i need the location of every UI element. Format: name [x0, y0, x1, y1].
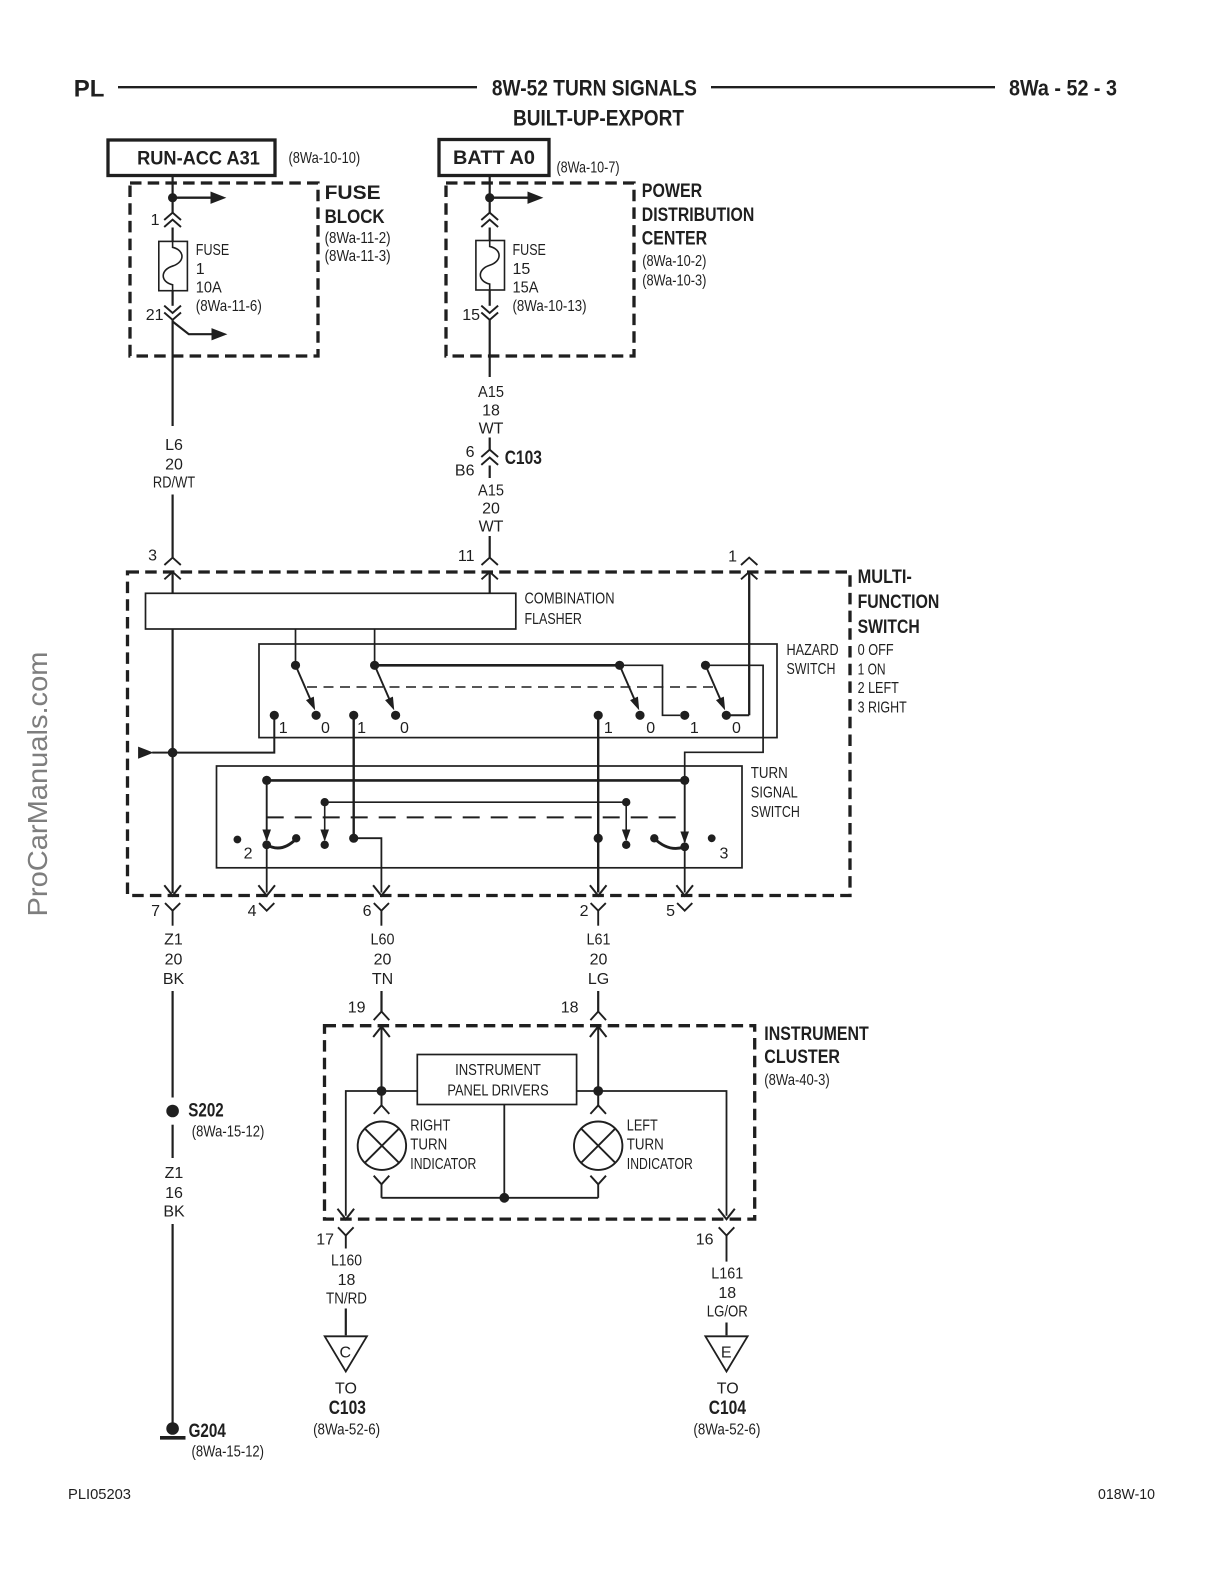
feed box BATT A0: [439, 140, 549, 176]
svg-text:20: 20: [590, 952, 608, 969]
pin 21 connector chevrons: [164, 306, 181, 313]
svg-text:(8Wa-10-10): (8Wa-10-10): [289, 150, 361, 167]
branch arrow to other circuits: [173, 322, 212, 335]
svg-text:(8Wa-11-2): (8Wa-11-2): [325, 230, 391, 247]
svg-text:20: 20: [165, 952, 183, 969]
wire flasher to hazard pivot 2: [374, 629, 376, 665]
fuse F15 body: [476, 241, 505, 291]
svg-text:C104: C104: [709, 1397, 746, 1419]
pin 1 connector chevrons: [164, 213, 181, 220]
svg-text:18: 18: [718, 1285, 736, 1302]
svg-text:(8Wa-10-3): (8Wa-10-3): [642, 273, 706, 290]
wire Z1 down to splice: [172, 991, 174, 1098]
pin 15 connector chevrons: [481, 306, 498, 313]
svg-text:INSTRUMENT: INSTRUMENT: [764, 1023, 868, 1045]
junction dot PDC feed: [485, 193, 494, 202]
hazard switch travel dashed line: [307, 686, 714, 688]
svg-text:BATT A0: BATT A0: [453, 148, 535, 169]
wire pin 11 to flasher: [489, 572, 491, 593]
header rule left: [118, 86, 477, 88]
multi-function switch enclosure (dashed): [128, 572, 851, 896]
hazard lever 2: [375, 665, 390, 699]
wire A15 to MFS pin 11: [489, 536, 491, 557]
svg-text:0: 0: [646, 720, 655, 737]
svg-text:(8Wa-10-13): (8Wa-10-13): [513, 298, 587, 315]
svg-text:19: 19: [348, 1000, 366, 1017]
wire L61 to cluster pin 18: [597, 991, 599, 1012]
second rail arrow right: [625, 802, 627, 840]
svg-text:3: 3: [148, 548, 157, 565]
contact dot left wiper target: [262, 840, 271, 849]
svg-text:A15: A15: [478, 384, 504, 401]
svg-text:L161: L161: [711, 1266, 743, 1283]
svg-text:(8Wa-11-3): (8Wa-11-3): [325, 248, 391, 265]
junction dot fuse block feed: [168, 193, 177, 202]
svg-text:INSTRUMENT: INSTRUMENT: [455, 1062, 541, 1079]
wire pin 3 to flasher: [172, 572, 174, 593]
header rule right: [711, 86, 995, 88]
svg-text:DISTRIBUTION: DISTRIBUTION: [642, 204, 755, 226]
turn signal second rail: [325, 801, 627, 803]
svg-text:FLASHER: FLASHER: [525, 611, 582, 628]
svg-text:1: 1: [357, 720, 366, 737]
wire Z1 16 BK splice to label: [172, 1125, 174, 1158]
wire flasher to pin7 rail: [172, 629, 174, 893]
svg-text:1: 1: [196, 261, 205, 278]
hazard pivot dot 2: [370, 661, 379, 670]
wire drivers to pin 17 drop: [346, 1091, 418, 1216]
svg-text:1 ON: 1 ON: [858, 662, 886, 679]
svg-text:G204: G204: [189, 1420, 226, 1442]
svg-text:L6: L6: [165, 437, 183, 454]
svg-text:C103: C103: [505, 447, 542, 469]
svg-text:(8Wa-15-12): (8Wa-15-12): [192, 1444, 265, 1461]
arrow to other circuits (PDC): [494, 196, 528, 198]
wire right wiper contact to pin 5: [684, 847, 686, 893]
svg-text:MULTI-: MULTI-: [858, 566, 912, 588]
svg-text:15: 15: [462, 307, 480, 324]
hazard lever 3: [620, 665, 635, 699]
svg-text:WT: WT: [479, 420, 504, 437]
splice S202: [166, 1105, 179, 1118]
svg-text:0: 0: [732, 720, 741, 737]
wire pin1 to fuse: [172, 228, 174, 242]
svg-text:S202: S202: [188, 1100, 224, 1122]
svg-text:RD/WT: RD/WT: [153, 475, 195, 492]
svg-text:BUILT-UP-EXPORT: BUILT-UP-EXPORT: [513, 105, 684, 130]
svg-text:COMBINATION: COMBINATION: [525, 591, 615, 608]
svg-text:3: 3: [720, 846, 729, 863]
svg-text:RIGHT: RIGHT: [410, 1118, 450, 1135]
svg-text:TURN: TURN: [410, 1137, 447, 1154]
wire below C103: [489, 466, 491, 479]
svg-text:C: C: [340, 1345, 352, 1362]
feed box RUN-ACC A31: [108, 140, 275, 176]
svg-text:1: 1: [728, 549, 737, 566]
fuse block enclosure (dashed): [130, 183, 318, 356]
svg-text:BK: BK: [163, 1204, 185, 1221]
wire drivers to pin 16 drop: [577, 1091, 727, 1216]
hazard pivot dot 1: [291, 661, 300, 670]
svg-text:20: 20: [482, 501, 500, 518]
hazard switch box: [259, 644, 777, 738]
svg-text:15: 15: [513, 261, 531, 278]
svg-text:6: 6: [466, 444, 475, 461]
svg-text:2: 2: [244, 846, 253, 863]
svg-text:BLOCK: BLOCK: [325, 206, 385, 228]
pin 16 symbol: [719, 1227, 735, 1235]
wire contact 1-3 down to pin 2: [597, 715, 599, 892]
wire L161 to off-page connector E: [725, 1323, 727, 1336]
arrow to other circuits (fuse block): [177, 196, 211, 198]
svg-text:5: 5: [666, 903, 675, 920]
wire to fuse 15: [489, 228, 491, 241]
svg-text:0 OFF: 0 OFF: [858, 642, 894, 659]
wire fuse to pin 21: [172, 291, 174, 306]
wire BATT into PDC: [489, 176, 491, 213]
pin 6 symbol: [373, 885, 390, 896]
wire pivot3 to contact 1-4: [620, 665, 680, 715]
contact dot position 2: [234, 836, 242, 844]
pin 17 exit arrow: [338, 1209, 355, 1220]
pin 16 exit arrow: [718, 1209, 735, 1220]
svg-text:PL: PL: [74, 76, 105, 103]
svg-text:20: 20: [374, 952, 392, 969]
svg-text:Z1: Z1: [165, 1165, 184, 1182]
svg-text:FUSE: FUSE: [325, 182, 381, 204]
svg-text:2: 2: [580, 903, 589, 920]
svg-text:TO: TO: [717, 1381, 739, 1398]
svg-text:SWITCH: SWITCH: [751, 804, 800, 821]
wire flasher to hazard pivot 1: [295, 629, 297, 665]
svg-text:WT: WT: [479, 519, 504, 536]
pin 3 boundary chevrons: [164, 558, 180, 565]
wire into connector C103: [489, 438, 491, 450]
pin 17 symbol: [338, 1227, 354, 1235]
svg-text:Z1: Z1: [164, 932, 183, 949]
pin 5 symbol: [676, 885, 693, 896]
svg-text:TN/RD: TN/RD: [326, 1291, 367, 1308]
second rail arrow left: [324, 802, 326, 840]
junction dot L60 takeoff: [349, 834, 358, 843]
svg-text:SIGNAL: SIGNAL: [751, 785, 798, 802]
off-page connector E triangle: [705, 1336, 747, 1371]
svg-text:20: 20: [165, 457, 183, 474]
svg-text:(8Wa-10-2): (8Wa-10-2): [642, 253, 706, 270]
svg-text:TO: TO: [335, 1381, 357, 1398]
power distribution center enclosure (dashed): [446, 183, 634, 356]
svg-text:10A: 10A: [196, 280, 222, 297]
hazard pivot dot 4: [701, 661, 710, 670]
hazard lever 4: [706, 665, 721, 699]
second rail contact dots: [321, 841, 329, 849]
turn signal wiper arrow left: [266, 780, 268, 840]
svg-text:(8Wa-15-12): (8Wa-15-12): [192, 1124, 264, 1141]
svg-text:PANEL DRIVERS: PANEL DRIVERS: [447, 1083, 548, 1100]
svg-text:018W-10: 018W-10: [1098, 1486, 1155, 1503]
pin 19 entry arrow: [373, 1027, 390, 1038]
svg-text:1: 1: [690, 720, 699, 737]
instrument cluster enclosure (dashed): [325, 1026, 755, 1219]
svg-text:LG/OR: LG/OR: [707, 1304, 748, 1321]
svg-text:17: 17: [316, 1232, 334, 1249]
fuse F1 body: [159, 241, 188, 290]
hazard pivot dot 3: [615, 661, 624, 670]
svg-text:1: 1: [279, 720, 288, 737]
svg-text:HAZARD: HAZARD: [787, 642, 839, 659]
right wiper arc: [650, 834, 658, 842]
turn signal wiper arrow right: [684, 780, 686, 842]
svg-text:16: 16: [696, 1232, 714, 1249]
arrow into MFS return junction: [139, 747, 153, 758]
wire pin 1 down to hazard contact: [748, 572, 750, 715]
wire drivers to lamp return: [503, 1105, 505, 1198]
pin 4 symbol: [258, 885, 275, 896]
svg-text:A15: A15: [478, 482, 504, 499]
off-page connector C triangle: [325, 1336, 367, 1371]
svg-text:L160: L160: [331, 1253, 362, 1270]
svg-text:8Wa - 52 - 3: 8Wa - 52 - 3: [1009, 76, 1117, 101]
instrument panel drivers box: [417, 1055, 576, 1105]
wire fuse15 to pin 15: [489, 290, 491, 306]
svg-text:E: E: [721, 1345, 732, 1362]
contact dot position 3: [708, 834, 716, 842]
svg-text:FUSE: FUSE: [513, 242, 546, 259]
svg-text:3 RIGHT: 3 RIGHT: [858, 700, 907, 717]
pin 1 boundary chevrons: [741, 558, 757, 565]
left wiper arc: [267, 839, 297, 848]
svg-text:6: 6: [363, 903, 372, 920]
svg-text:15A: 15A: [513, 280, 539, 297]
svg-text:TN: TN: [372, 971, 393, 988]
svg-text:0: 0: [400, 720, 409, 737]
svg-text:(8Wa-52-6): (8Wa-52-6): [693, 1422, 760, 1439]
svg-text:B6: B6: [455, 463, 475, 480]
svg-text:POWER: POWER: [642, 180, 702, 202]
svg-text:L60: L60: [371, 932, 395, 949]
wire L60 to cluster pin 19: [380, 991, 382, 1012]
svg-text:18: 18: [561, 1000, 579, 1017]
svg-text:LG: LG: [588, 971, 609, 988]
svg-text:CLUSTER: CLUSTER: [764, 1046, 840, 1068]
svg-text:INDICATOR: INDICATOR: [410, 1156, 476, 1173]
pin 7 symbol: [164, 885, 181, 896]
svg-text:INDICATOR: INDICATOR: [627, 1156, 693, 1173]
wire L160 to off-page connector C: [345, 1309, 347, 1336]
wire pivot4 to turn-signal rail: [685, 665, 763, 780]
junction dot return rail: [168, 748, 178, 758]
junction dot lamp return: [499, 1193, 509, 1203]
svg-text:SWITCH: SWITCH: [787, 661, 836, 678]
svg-text:ProCarManuals.com: ProCarManuals.com: [22, 652, 53, 917]
junction dot left-turn feed: [593, 1086, 603, 1096]
svg-text:11: 11: [458, 548, 475, 565]
svg-text:SWITCH: SWITCH: [858, 616, 920, 638]
svg-text:1: 1: [604, 720, 613, 737]
svg-text:LEFT: LEFT: [627, 1118, 658, 1135]
wire below pin 21 with branch: [172, 320, 174, 426]
turn signal travel dashed line: [267, 816, 684, 818]
svg-text:8W-52 TURN SIGNALS: 8W-52 TURN SIGNALS: [492, 75, 697, 100]
svg-text:18: 18: [338, 1272, 356, 1289]
svg-text:7: 7: [151, 903, 160, 920]
turn signal upper rail: [267, 779, 685, 782]
svg-text:0: 0: [321, 720, 330, 737]
svg-text:(8Wa-40-3): (8Wa-40-3): [764, 1072, 829, 1089]
svg-text:21: 21: [146, 307, 164, 324]
svg-text:RUN-ACC A31: RUN-ACC A31: [137, 149, 260, 170]
wire contact 1-2 down to turn signal switch: [353, 715, 355, 838]
PDC feed connector chevrons: [481, 213, 498, 220]
svg-text:PLI05203: PLI05203: [68, 1486, 131, 1503]
turn signal switch box: [217, 766, 743, 868]
combination flasher box: [146, 593, 516, 629]
svg-text:4: 4: [248, 903, 257, 920]
svg-text:18: 18: [482, 403, 500, 420]
junction dot right-turn feed: [377, 1086, 387, 1096]
contact dot right wiper target: [680, 842, 689, 851]
hazard lever 1: [296, 665, 311, 699]
svg-text:TURN: TURN: [751, 765, 788, 782]
hazard contact dots row: [270, 711, 279, 720]
wire Z1 16 BK label to ground: [172, 1224, 174, 1429]
svg-text:BK: BK: [163, 971, 185, 988]
svg-text:(8Wa-10-7): (8Wa-10-7): [557, 160, 620, 177]
svg-text:FUSE: FUSE: [196, 242, 229, 259]
svg-text:(8Wa-11-6): (8Wa-11-6): [196, 298, 262, 315]
wire pin 19 to right lamp: [381, 1027, 383, 1106]
wire contact1-1 to flasher return rail: [173, 715, 275, 752]
pin 2 symbol: [590, 885, 607, 896]
wire left wiper contact to pin 4: [266, 845, 268, 893]
lamp return rail: [382, 1197, 599, 1199]
svg-text:FUNCTION: FUNCTION: [858, 591, 940, 613]
pin 18 entry arrow: [590, 1027, 607, 1038]
svg-text:C103: C103: [329, 1397, 366, 1419]
svg-text:16: 16: [165, 1185, 183, 1202]
wire pin 18 to left lamp: [597, 1027, 599, 1106]
connector C103 chevrons: [481, 450, 498, 457]
svg-text:1: 1: [151, 212, 160, 229]
svg-text:L61: L61: [587, 932, 611, 949]
svg-text:CENTER: CENTER: [642, 227, 707, 249]
wire L6 to MFS pin 3: [172, 495, 174, 558]
wire RUN-ACC into fuse block: [172, 176, 174, 213]
wire below pin 15: [489, 320, 491, 377]
left turn indicator lamp: [590, 1105, 606, 1114]
wire L60 takeoff to pin 6: [354, 838, 382, 892]
right turn indicator lamp: [374, 1105, 390, 1114]
ground G204 symbol: [166, 1422, 179, 1435]
pin 11 boundary chevrons: [482, 558, 498, 565]
svg-text:2 LEFT: 2 LEFT: [858, 680, 899, 697]
svg-text:(8Wa-52-6): (8Wa-52-6): [313, 1422, 380, 1439]
svg-text:TURN: TURN: [627, 1137, 664, 1154]
junction dot on pin2 wire: [594, 834, 603, 843]
hazard common rail pivot2-pivot3: [375, 664, 620, 667]
